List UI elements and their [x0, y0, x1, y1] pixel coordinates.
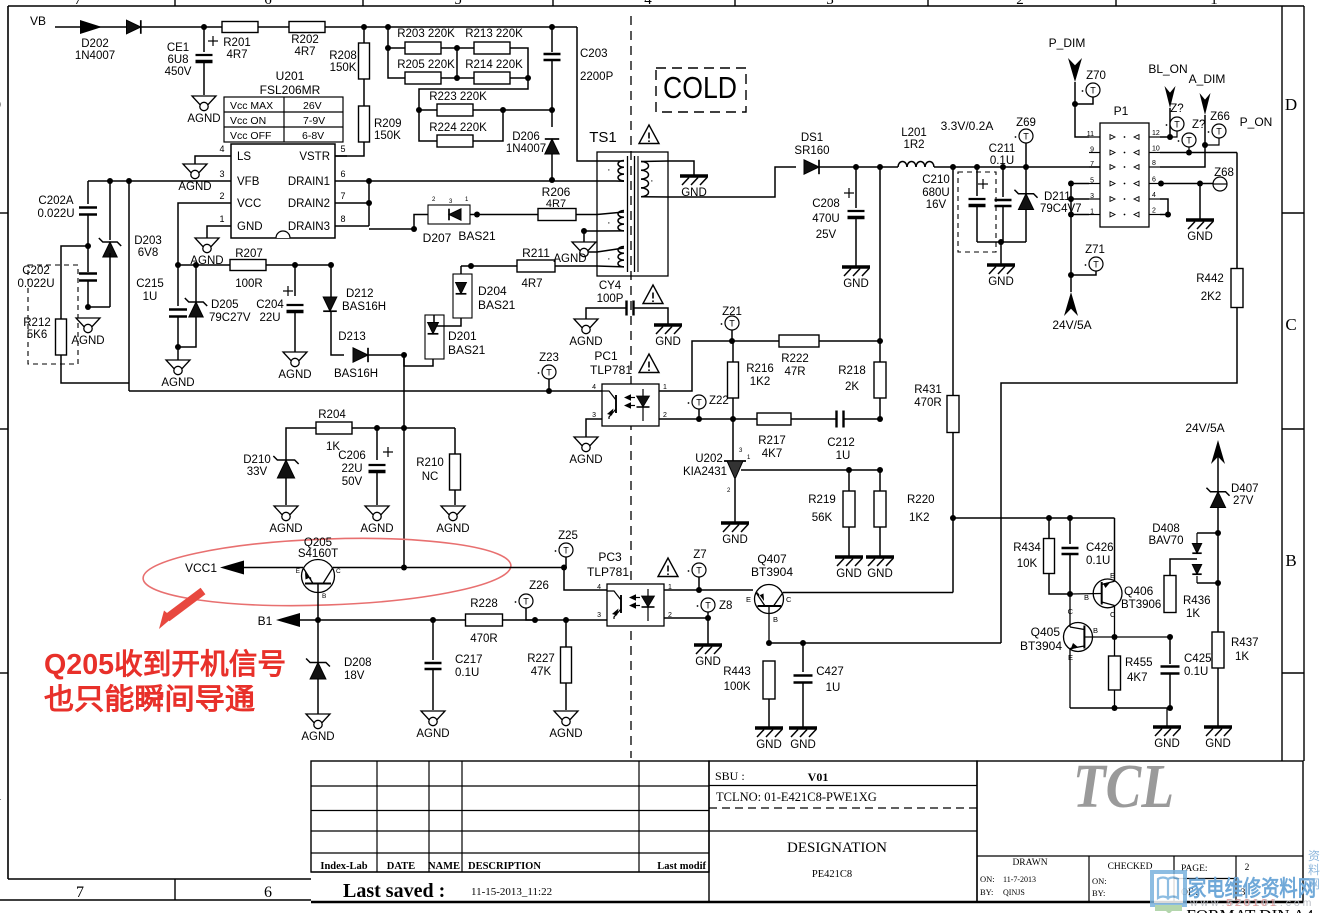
capacitor C208 470U 25V [855, 167, 857, 208]
wire R204 row [352, 427, 455, 429]
svg-text:Z?: Z? [1192, 119, 1205, 131]
TS1 secondary winding [641, 162, 649, 171]
svg-text:GND: GND [1205, 738, 1231, 750]
svg-text:R208: R208 [329, 50, 357, 62]
svg-text:R212: R212 [23, 317, 51, 329]
svg-text:C204: C204 [256, 299, 284, 311]
wire VCC trace [178, 203, 219, 265]
svg-text:料: 料 [1308, 863, 1320, 877]
svg-text:C208: C208 [812, 198, 840, 210]
svg-text:E: E [746, 595, 751, 604]
svg-text:B: B [773, 615, 778, 624]
svg-text:A_DIM: A_DIM [1189, 72, 1226, 86]
svg-text:C217: C217 [455, 654, 483, 666]
svg-text:GND: GND [237, 221, 263, 233]
wire C202A to C202 [87, 215, 89, 272]
svg-text:11-15-2013_11:22: 11-15-2013_11:22 [471, 886, 552, 898]
svg-text:COLD: COLD [663, 70, 737, 105]
svg-text:R227: R227 [527, 653, 555, 665]
ground GND C210 group [987, 263, 1015, 267]
U201 pin 5 VSTR [335, 155, 347, 157]
title block SBU box [709, 761, 977, 902]
svg-text:BAS21: BAS21 [458, 229, 496, 243]
wire Z66 to A_DIM column [1205, 138, 1219, 145]
svg-text:AGND: AGND [71, 335, 104, 347]
svg-text:R228: R228 [470, 598, 498, 610]
svg-text:P1: P1 [1114, 104, 1129, 118]
wire D408 bottom to R437 node [1197, 582, 1218, 584]
svg-text:GND: GND [695, 656, 721, 668]
svg-text:25V: 25V [816, 229, 837, 241]
capacitor C217 0.1U [432, 620, 434, 660]
wire R213/R214 right node [510, 48, 528, 78]
svg-text:PC3: PC3 [598, 550, 622, 564]
zener D210 33V [286, 428, 316, 460]
wire D207 left to drains [369, 215, 428, 230]
border column ticks [174, 0, 176, 6]
svg-text:Q405: Q405 [1031, 625, 1061, 639]
svg-text:R211: R211 [522, 246, 550, 260]
svg-text:R218: R218 [838, 365, 866, 377]
svg-text:TCL: TCL [1073, 753, 1174, 821]
wire VFB rail [88, 180, 219, 182]
wire R209 to U201 VSTR [335, 142, 364, 156]
border row divider D/C [1282, 212, 1304, 214]
wire rail to Q406 emitter [1114, 518, 1116, 581]
P1 pin 4 [1149, 198, 1160, 200]
wire PC1 pin3 to AGND [586, 419, 602, 437]
resistor R201 [222, 22, 258, 33]
svg-text:1R2: 1R2 [903, 139, 924, 151]
wire node to R204 row [403, 355, 405, 428]
svg-text:1K: 1K [1235, 651, 1249, 663]
svg-text:R217: R217 [758, 435, 786, 447]
svg-text:4K7: 4K7 [762, 448, 782, 460]
ground GND R437 [1204, 725, 1232, 729]
svg-text:16V: 16V [926, 199, 947, 211]
svg-text:D201: D201 [448, 329, 477, 343]
resistor R436 1K [1164, 576, 1176, 613]
svg-text:150K: 150K [374, 130, 401, 142]
diode D201 BAS21 [425, 315, 444, 359]
svg-text:Vcc MAX: Vcc MAX [230, 100, 273, 112]
svg-text:2: 2 [1245, 863, 1250, 873]
resistor R228 470R [466, 614, 503, 626]
svg-text:DRAIN1: DRAIN1 [288, 176, 330, 188]
svg-text:B1: B1 [258, 614, 273, 628]
svg-text:2K2: 2K2 [1201, 291, 1221, 303]
svg-text:4R7: 4R7 [294, 46, 315, 58]
ground GND CY4 [654, 323, 682, 327]
svg-text:·: · [607, 217, 611, 229]
svg-text:R443: R443 [723, 666, 751, 678]
TS1 aux winding 2 [618, 247, 624, 254]
svg-text:79C4V7: 79C4V7 [1040, 203, 1082, 215]
svg-text:150K: 150K [330, 62, 357, 74]
svg-text:4: 4 [597, 584, 601, 591]
wire D408 top to 24V node [1197, 532, 1218, 534]
ground GND output cluster [1153, 725, 1181, 729]
capacitor C206 22U 50V [376, 428, 378, 460]
svg-text:B: B [1093, 626, 1098, 635]
wire C202 bottom node [87, 281, 89, 307]
svg-text:5: 5 [340, 144, 345, 154]
wire C210 group bottom [977, 241, 1026, 243]
svg-text:2: 2 [219, 191, 224, 201]
svg-text:VB: VB [30, 14, 46, 28]
zener D208 18V [317, 620, 319, 662]
wire Q405 emitter [1069, 649, 1071, 709]
test point Z22 [692, 395, 706, 409]
capacitor C204 22U [294, 265, 296, 296]
U201 pin 8 DRAIN3 [335, 225, 347, 227]
svg-text:R213 220K: R213 220K [465, 28, 523, 40]
svg-text:AGND: AGND [178, 181, 211, 193]
wire R223 right [473, 109, 552, 111]
resistor R202 [289, 22, 325, 33]
wire R208-R209 [363, 79, 365, 106]
diode D206 [551, 110, 553, 127]
svg-text:B: B [322, 593, 326, 600]
P1 pin 5 [1089, 183, 1100, 185]
U201 pin 2 VCC [219, 202, 231, 204]
svg-text:T: T [563, 546, 569, 556]
border row divider B/A [1282, 672, 1304, 674]
svg-text:100R: 100R [235, 278, 263, 290]
svg-text:4R7: 4R7 [546, 198, 566, 210]
svg-text:47K: 47K [531, 666, 552, 678]
resistor R223 [419, 109, 437, 111]
svg-text:C427: C427 [816, 666, 844, 678]
svg-text:C426: C426 [1086, 542, 1114, 554]
wire VCC column to Q205 [403, 428, 405, 568]
red ellipse annotation [142, 533, 512, 612]
wire pin4 to pin2 [1160, 199, 1168, 215]
wire R202 to C203 node [325, 26, 577, 28]
wire D207 right to R206 [477, 214, 539, 216]
wire VB input [55, 26, 127, 28]
svg-text:R210: R210 [416, 457, 444, 469]
resistor R220 1K2 [879, 470, 881, 491]
resistor R209 [359, 106, 370, 142]
wire D202 to R201 [141, 26, 204, 28]
ground GND C427 [789, 726, 817, 730]
svg-text:VCC: VCC [237, 198, 261, 210]
svg-text:D212: D212 [346, 288, 374, 300]
wire 3.3V rail [934, 166, 1100, 168]
svg-text:1U: 1U [836, 450, 851, 462]
svg-text:T: T [696, 566, 702, 576]
svg-text:BY:: BY: [980, 887, 993, 897]
resistor R212 [61, 246, 88, 319]
P1 pin 6 [1149, 183, 1160, 185]
svg-text:56K: 56K [812, 512, 833, 524]
svg-text:·: · [650, 175, 654, 187]
svg-text:4R7: 4R7 [226, 49, 247, 61]
svg-text:VSTR: VSTR [299, 151, 330, 163]
resistor R443 100K [763, 661, 775, 699]
svg-text:7: 7 [76, 884, 84, 901]
svg-text:ON:: ON: [1092, 876, 1107, 886]
diode D212 [330, 265, 332, 297]
wire D213 to node [368, 354, 404, 356]
svg-text:7: 7 [340, 191, 345, 201]
svg-text:6-8V: 6-8V [302, 130, 324, 142]
ground AGND CY4 [574, 319, 598, 332]
wire R224 right [473, 110, 503, 141]
wire D206 to drain rail [551, 154, 553, 180]
svg-text:·: · [607, 164, 611, 176]
svg-text:U202: U202 [695, 453, 723, 465]
svg-text:R431: R431 [914, 384, 942, 396]
P1 pin 12 [1149, 136, 1160, 138]
dashed TCLNO underline [709, 807, 977, 809]
svg-text:GND: GND [756, 739, 782, 751]
svg-text:Z23: Z23 [539, 352, 559, 364]
wire BL_ON to pin12 [1169, 108, 1171, 137]
revision table [311, 761, 709, 872]
svg-text:Z25: Z25 [558, 530, 578, 542]
svg-text:Z?: Z? [1170, 103, 1183, 115]
svg-text:4: 4 [219, 144, 224, 154]
svg-text:C206: C206 [338, 450, 366, 462]
ground AGND TS1 tap [572, 242, 596, 255]
U201 pin 1 GND [219, 225, 231, 227]
svg-text:GND: GND [843, 278, 869, 290]
svg-text:TLP781: TLP781 [590, 363, 632, 377]
svg-text:R202: R202 [291, 34, 319, 46]
svg-text:C: C [1285, 315, 1296, 334]
svg-text:24V/5A: 24V/5A [1185, 421, 1224, 435]
diode D202 [127, 20, 141, 34]
wire R201-R202 [258, 26, 289, 28]
svg-text:AGND: AGND [269, 523, 302, 535]
wire pin10 to R442 [1160, 152, 1237, 154]
wire Z? second to pin10 [1188, 147, 1190, 153]
svg-text:1: 1 [1090, 209, 1094, 216]
svg-text:3.3V/0.2A: 3.3V/0.2A [941, 119, 994, 133]
ground AGND at U201 LS [195, 156, 219, 164]
wire R211 to transformer [555, 265, 597, 267]
svg-text:AGND: AGND [416, 728, 449, 740]
capacitor C425 0.1U [1169, 637, 1171, 664]
wire Z8 node to GND [707, 618, 709, 644]
wire Q405 base row [1084, 636, 1170, 638]
svg-text:450V: 450V [165, 66, 192, 78]
wire A_DIM to pin8 [1160, 115, 1205, 167]
svg-text:R206: R206 [542, 185, 571, 199]
svg-text:1K2: 1K2 [750, 376, 770, 388]
svg-text:D: D [0, 95, 1, 114]
svg-text:100K: 100K [724, 681, 751, 693]
wire D212 to D213 [331, 312, 344, 355]
capacitor C427 1U [802, 643, 804, 672]
wire C425 rail to GND [1166, 708, 1168, 726]
zener D211 79C4V7 [1025, 167, 1027, 194]
svg-text:AGND: AGND [187, 113, 220, 125]
svg-text:R455: R455 [1125, 657, 1153, 669]
svg-text:R209: R209 [374, 118, 402, 130]
svg-text:SBU :: SBU : [715, 769, 745, 783]
transformer TS1 body [597, 152, 668, 276]
svg-text:1: 1 [663, 384, 667, 391]
diode D207 BAS21 [428, 205, 470, 224]
wire TS1 secondary out [668, 167, 796, 197]
svg-text:R207: R207 [235, 248, 263, 260]
svg-text:T: T [1093, 260, 1099, 270]
svg-text:0.1U: 0.1U [990, 155, 1014, 167]
U201 pin 3 VFB [219, 180, 231, 182]
svg-text:BY:: BY: [1092, 888, 1105, 898]
wire PC3 pin1 to Q407 [664, 589, 753, 591]
wire VFB rail left drop [87, 181, 89, 204]
capacitor C426 0.1U [1069, 518, 1071, 544]
svg-text:VCC1: VCC1 [185, 561, 217, 575]
resistor R207 [178, 264, 230, 266]
svg-text:Last saved :: Last saved : [343, 880, 445, 902]
svg-text:AGND: AGND [553, 253, 586, 265]
svg-text:1: 1 [1210, 0, 1218, 8]
svg-text:LS: LS [237, 151, 251, 163]
svg-text:U201: U201 [276, 69, 305, 83]
svg-text:DESIGNATION: DESIGNATION [787, 840, 887, 856]
svg-text:CY4: CY4 [599, 280, 622, 292]
svg-text:DRAIN3: DRAIN3 [288, 221, 330, 233]
wire GND drop pin6 [1199, 184, 1201, 220]
svg-text:2: 2 [663, 412, 667, 419]
svg-text:GND: GND [867, 568, 893, 580]
ground AGND C202 [76, 318, 100, 331]
resistor R434 10K [1048, 518, 1050, 539]
svg-text:也只能瞬间导通: 也只能瞬间导通 [44, 683, 255, 716]
svg-text:T: T [1216, 127, 1222, 137]
wire U202 anode to GND [734, 479, 736, 522]
svg-text:2: 2 [1016, 0, 1024, 8]
wire VFB feedback drop [128, 181, 130, 391]
wire Q405 collector [1069, 594, 1071, 627]
svg-text:TCLNO: 01-E421C8-PWE1XG: TCLNO: 01-E421C8-PWE1XG [716, 790, 877, 804]
P1 pin 7 [1089, 166, 1100, 168]
ground GND P1 [1186, 218, 1214, 222]
svg-text:DRAIN2: DRAIN2 [288, 198, 330, 210]
title block right cells [977, 761, 1303, 902]
svg-text:79C27V: 79C27V [209, 312, 251, 324]
svg-text:KIA2431: KIA2431 [683, 466, 727, 478]
svg-text:CHECKED: CHECKED [1108, 862, 1153, 872]
svg-text:AGND: AGND [301, 731, 334, 743]
capacitor C215 [177, 265, 179, 306]
connector P1 body [1100, 123, 1149, 227]
svg-text:QINJS: QINJS [1003, 888, 1025, 897]
svg-text:R203 220K: R203 220K [397, 28, 455, 40]
resistor R455 4K7 [1114, 637, 1116, 656]
resistor R206 [538, 209, 576, 221]
wire pin6 to Z68 [1160, 183, 1213, 185]
svg-text:DESCRIPTION: DESCRIPTION [468, 861, 541, 872]
svg-text:470R: 470R [914, 397, 942, 409]
dashed box C202/R212 [28, 265, 78, 364]
resistor R204 1K [316, 422, 352, 434]
svg-text:AGND: AGND [360, 523, 393, 535]
ground AGND PC1 [574, 437, 598, 450]
svg-text:Z70: Z70 [1086, 70, 1106, 82]
resistor R216 1K2 [732, 341, 734, 362]
svg-text:GND: GND [1154, 738, 1180, 750]
wire R212 bottom [61, 355, 129, 383]
ground GND TS1 [680, 174, 708, 178]
svg-text:T: T [729, 319, 735, 329]
ground AGND R210 [441, 506, 465, 519]
P1 pin 11 [1089, 136, 1100, 138]
svg-text:680U: 680U [922, 187, 950, 199]
svg-text:DS1: DS1 [801, 132, 823, 144]
svg-text:3: 3 [1090, 193, 1094, 200]
svg-text:D206: D206 [512, 131, 540, 143]
svg-text:3: 3 [826, 0, 834, 8]
svg-text:R442: R442 [1196, 273, 1224, 285]
svg-text:R434: R434 [1013, 542, 1041, 554]
wire VCC1 to Q205 [244, 567, 303, 569]
wire D407 to node [1217, 507, 1219, 583]
svg-text:26V: 26V [303, 100, 322, 112]
svg-text:AGND: AGND [569, 454, 602, 466]
thick bottom border [311, 901, 1303, 903]
svg-text:GND: GND [836, 568, 862, 580]
arrow VB flow [80, 20, 102, 34]
wire Q406 base [1070, 593, 1102, 596]
wire drain rail to transformer [369, 180, 597, 182]
svg-text:T: T [705, 601, 711, 611]
svg-text:10: 10 [1152, 146, 1160, 153]
U201 Vcc table [224, 97, 343, 142]
wire CY4 left to AGND [586, 308, 627, 319]
svg-text:470R: 470R [470, 633, 498, 645]
svg-text:T: T [1186, 136, 1192, 146]
resistor R218 2K [879, 341, 881, 362]
svg-text:1U: 1U [826, 682, 841, 694]
ground GND R220 [866, 555, 894, 559]
svg-text:Q205收到开机信号: Q205收到开机信号 [44, 648, 286, 681]
svg-text:AGND: AGND [278, 369, 311, 381]
svg-text:C: C [0, 315, 1, 334]
svg-text:D210: D210 [243, 454, 271, 466]
ground AGND C217 [421, 711, 445, 724]
svg-text:FSL206MR: FSL206MR [260, 83, 321, 97]
svg-text:9: 9 [1090, 147, 1094, 154]
svg-text:7: 7 [74, 0, 82, 8]
svg-text:0.1U: 0.1U [455, 667, 479, 679]
ground AGND CE1 [192, 96, 216, 109]
svg-text:BAS21: BAS21 [448, 343, 486, 357]
border row divider C/B [1282, 428, 1304, 430]
capacitor C210 680U 16V [976, 167, 978, 196]
svg-text:AGND: AGND [569, 336, 602, 348]
svg-text:2: 2 [1152, 208, 1156, 215]
wire D201 bottom [404, 355, 433, 366]
svg-text:SR160: SR160 [794, 145, 829, 157]
svg-text:R216: R216 [746, 363, 774, 375]
resistor R213 [457, 47, 474, 49]
wire Q205 base down to B1 row [317, 584, 319, 621]
wire U202 cathode row [741, 469, 880, 471]
svg-text:T: T [696, 398, 702, 408]
svg-text:3: 3 [219, 169, 224, 179]
wire emitter rail [1070, 707, 1170, 709]
wire R442 to Q407 base rail [1001, 307, 1237, 643]
capacitor CE1 6U8 450V [203, 27, 205, 52]
svg-text:L201: L201 [901, 127, 927, 139]
svg-text:D408: D408 [1152, 523, 1180, 535]
